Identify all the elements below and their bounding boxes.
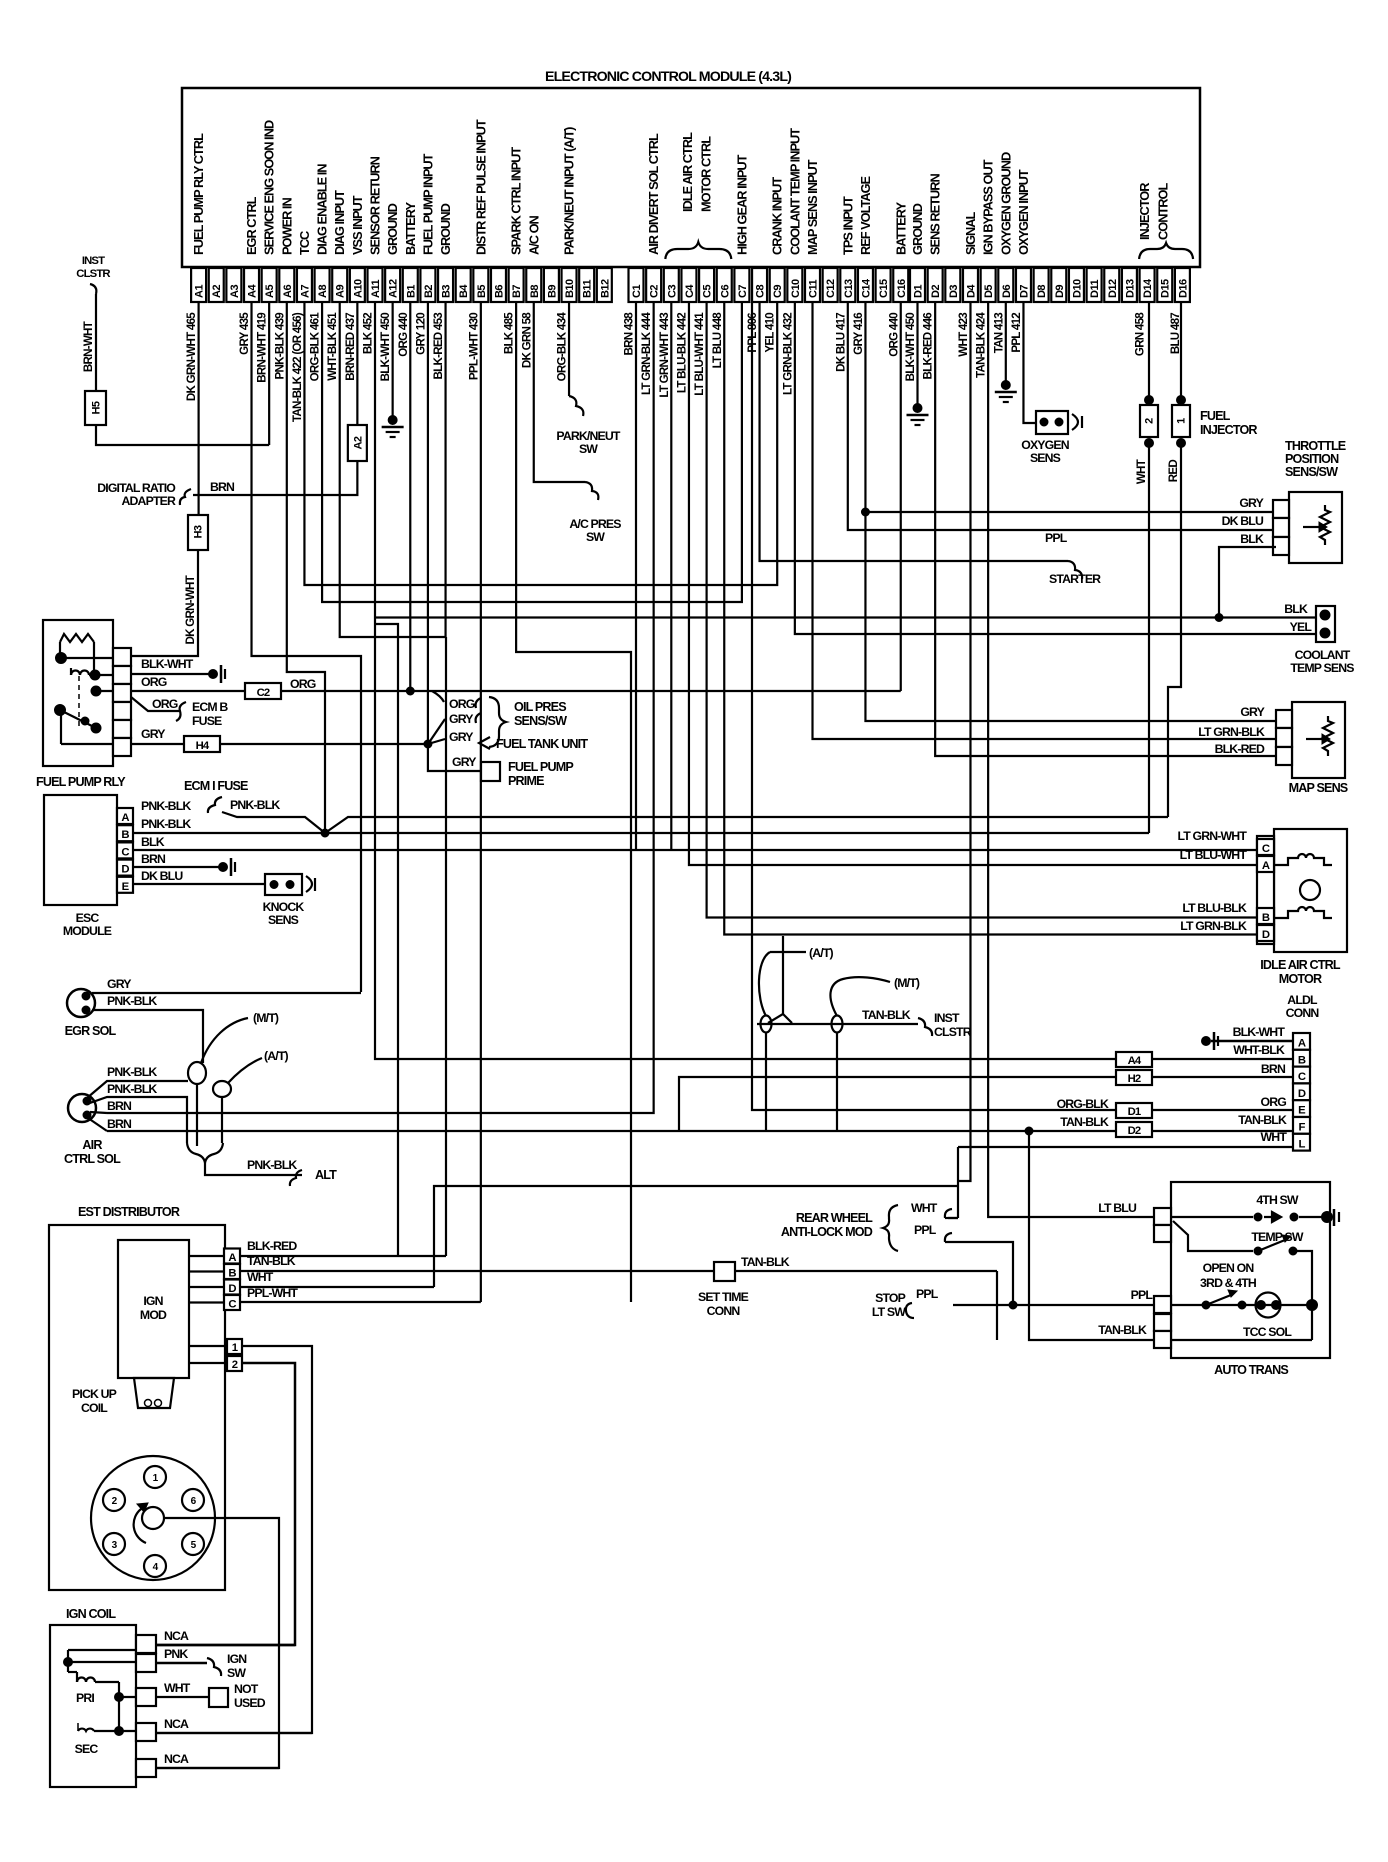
svg-text:PNK-BLK 439: PNK-BLK 439 [273, 312, 286, 380]
svg-text:2: 2 [1144, 418, 1156, 424]
svg-text:ECM I FUSE: ECM I FUSE [184, 779, 248, 793]
svg-text:EGR SOL: EGR SOL [65, 1024, 117, 1038]
svg-text:IGN COIL: IGN COIL [66, 1607, 116, 1621]
svg-text:MODULE: MODULE [63, 924, 112, 938]
svg-text:RED: RED [1167, 460, 1180, 483]
svg-text:LT GRN-BLK: LT GRN-BLK [1198, 725, 1265, 739]
svg-text:IDLE AIR CTRL: IDLE AIR CTRL [680, 132, 695, 212]
svg-text:MOTOR: MOTOR [1279, 972, 1322, 986]
svg-text:H2: H2 [1128, 1073, 1141, 1085]
svg-text:ORG-BLK: ORG-BLK [1057, 1097, 1109, 1111]
svg-text:A12: A12 [388, 279, 400, 298]
svg-text:A7: A7 [299, 285, 311, 298]
svg-text:C4: C4 [684, 284, 696, 298]
wire B2 GRY down to fuel tank splice [427, 302, 429, 744]
wire GRY stub to oil pres [428, 719, 445, 744]
svg-text:DK BLU: DK BLU [141, 869, 183, 883]
svg-text:TAN-BLK: TAN-BLK [741, 1255, 790, 1269]
svg-text:C2: C2 [649, 285, 661, 298]
svg-text:D2: D2 [1128, 1125, 1141, 1137]
ground to ALDL A BLK-WHT [1211, 1040, 1293, 1043]
svg-text:A5: A5 [264, 285, 276, 298]
svg-text:ANTI-LOCK MOD: ANTI-LOCK MOD [781, 1225, 873, 1239]
svg-text:MOD: MOD [140, 1308, 167, 1322]
svg-text:TAN-BLK 424: TAN-BLK 424 [975, 312, 988, 378]
svg-text:AIR DIVERT SOL CTRL: AIR DIVERT SOL CTRL [646, 133, 661, 255]
big brace [883, 1205, 898, 1251]
relay internal coil [71, 671, 89, 676]
svg-text:D2: D2 [930, 285, 942, 298]
svg-text:BLK: BLK [1284, 602, 1308, 616]
svg-text:SIGNAL: SIGNAL [963, 211, 978, 255]
svg-text:OXYGEN INPUT: OXYGEN INPUT [1016, 169, 1031, 255]
svg-text:D7: D7 [1018, 285, 1030, 298]
temp sw circuit [1254, 1247, 1262, 1255]
svg-text:TCC SOL: TCC SOL [1243, 1325, 1292, 1339]
svg-text:FUSE: FUSE [192, 714, 222, 728]
wire dist B TAN-BLK to set time conn and auto trans [240, 1270, 997, 1272]
svg-text:MAP SENS: MAP SENS [1289, 781, 1348, 795]
wire C3 LT GRN-WHT (unrouted short) [670, 302, 672, 850]
svg-text:BLK 452: BLK 452 [362, 313, 375, 354]
wire D1 BLK-WHT ground [916, 302, 918, 408]
wire B8 DK GRN to A/C pres switch [534, 302, 585, 482]
wire RED injector 1 down to PNK-BLK branch line [1168, 447, 1181, 817]
svg-text:A: A [228, 1252, 236, 1264]
wire air sol BRN lower to H2 jog [88, 1118, 107, 1131]
svg-text:PNK-BLK: PNK-BLK [247, 1158, 297, 1172]
svg-text:WHT: WHT [164, 1681, 191, 1695]
svg-text:C12: C12 [825, 279, 837, 298]
svg-text:H5: H5 [91, 401, 103, 414]
svg-text:ALT: ALT [315, 1168, 337, 1182]
svg-text:GRY 435: GRY 435 [238, 312, 251, 355]
svg-text:D15: D15 [1160, 279, 1172, 298]
svg-text:D8: D8 [1036, 285, 1048, 298]
svg-text:D11: D11 [1089, 280, 1101, 298]
svg-text:USED: USED [234, 1696, 266, 1710]
curve to A/T label [759, 952, 770, 1016]
svg-text:SENS RETURN: SENS RETURN [928, 174, 943, 255]
svg-text:GRY: GRY [1239, 496, 1263, 510]
svg-text:GRY: GRY [1240, 705, 1264, 719]
svg-text:PPL: PPL [1045, 531, 1068, 545]
svg-text:SET TIME: SET TIME [698, 1290, 749, 1304]
connector H2 inline on ALDL C line [1116, 1070, 1152, 1085]
svg-text:LT GRN-BLK 432: LT GRN-BLK 432 [781, 313, 794, 395]
svg-text:3RD & 4TH: 3RD & 4TH [1200, 1276, 1257, 1290]
wire GRY to fuel pump prime [428, 744, 481, 771]
wire vertical feed from idle-air D line to Y split [782, 936, 784, 1014]
svg-text:MOTOR CTRL: MOTOR CTRL [699, 136, 714, 212]
wire A4 GRY to EGR sol [252, 302, 361, 992]
wire B10 ORG-BLK to park/neut switch [568, 302, 570, 396]
rotor arrow [134, 1509, 146, 1543]
svg-text:PNK-BLK: PNK-BLK [230, 798, 280, 812]
svg-text:COIL: COIL [81, 1401, 108, 1415]
4th sw circuit [1171, 1216, 1253, 1218]
svg-text:BLK-WHT 450: BLK-WHT 450 [904, 313, 917, 382]
svg-text:A1: A1 [194, 285, 206, 298]
svg-text:D6: D6 [1001, 285, 1013, 298]
svg-text:4TH SW: 4TH SW [1256, 1193, 1299, 1207]
svg-text:EST DISTRIBUTOR: EST DISTRIBUTOR [78, 1205, 180, 1219]
svg-text:SEC: SEC [75, 1742, 99, 1756]
wire BLK coolant branch from A11 vertical [375, 616, 1315, 618]
M/T loop and curve [188, 1062, 206, 1084]
curve to M/T label [830, 977, 890, 1016]
auto trans box [1171, 1182, 1330, 1358]
svg-text:YEL 410: YEL 410 [764, 313, 777, 353]
wire ORG branch to ECM B fuse [131, 697, 180, 711]
svg-text:BRN: BRN [107, 1099, 132, 1113]
tcc sol circuit [1171, 1304, 1242, 1306]
oil pres sens/sw brace and label [489, 697, 506, 747]
wire dist A BLK-RED [240, 1255, 446, 1257]
svg-text:FUEL: FUEL [1200, 409, 1231, 423]
svg-text:CONN: CONN [707, 1304, 741, 1318]
fuel pump prime box [481, 762, 500, 781]
svg-text:WHT: WHT [911, 1201, 938, 1215]
ign coil wire NCA 2 [156, 1732, 312, 1734]
svg-text:A8: A8 [317, 285, 329, 298]
svg-text:D1: D1 [913, 285, 925, 298]
svg-text:FUEL PUMP RLY CTRL: FUEL PUMP RLY CTRL [191, 133, 206, 255]
svg-text:PNK-BLK: PNK-BLK [107, 1082, 157, 1096]
svg-text:C10: C10 [790, 279, 802, 298]
wire EGR PNK-BLK to M/T loop [92, 1010, 203, 1063]
svg-text:B2: B2 [423, 285, 435, 298]
svg-text:SENS: SENS [1030, 451, 1061, 465]
svg-text:B: B [1298, 1054, 1306, 1066]
ECM pin boxes C1-D16 [629, 268, 644, 302]
svg-text:STOP: STOP [875, 1291, 906, 1305]
wire tan-blk to inst clstr (middle) [757, 1023, 918, 1025]
svg-text:OXYGEN GROUND: OXYGEN GROUND [998, 152, 1013, 255]
svg-text:VSS INPUT: VSS INPUT [350, 195, 365, 255]
svg-text:TAN-BLK: TAN-BLK [247, 1254, 296, 1268]
svg-text:BLK-RED: BLK-RED [247, 1239, 297, 1253]
svg-text:PNK-BLK: PNK-BLK [107, 1065, 157, 1079]
svg-text:NOT: NOT [234, 1682, 259, 1696]
wire C2 to air ctrl sol BRN [107, 302, 654, 1113]
svg-text:BATTERY: BATTERY [403, 202, 418, 255]
svg-text:COOLANT TEMP INPUT: COOLANT TEMP INPUT [787, 128, 802, 255]
svg-text:GRY: GRY [449, 730, 473, 744]
svg-text:D: D [228, 1283, 236, 1295]
svg-text:B4: B4 [458, 284, 470, 298]
svg-text:D13: D13 [1124, 279, 1136, 298]
svg-text:SW: SW [586, 530, 605, 544]
svg-text:C: C [121, 846, 129, 858]
wire C6 to idle air D [724, 302, 1257, 935]
pnk-blk hook and label [208, 797, 222, 813]
TPS wiper arrow [1303, 526, 1319, 528]
svg-text:CRANK INPUT: CRANK INPUT [770, 177, 785, 255]
svg-text:BRN-RED 437: BRN-RED 437 [344, 313, 357, 381]
svg-text:ORG-BLK 461: ORG-BLK 461 [309, 312, 322, 382]
resistor zigzag in TPS [1320, 505, 1330, 545]
svg-text:PPL-WHT: PPL-WHT [247, 1286, 298, 1300]
svg-text:PNK-BLK: PNK-BLK [107, 994, 157, 1008]
svg-text:BRN: BRN [141, 852, 166, 866]
wire D14 GRN 458 to injector 2 [1148, 302, 1150, 400]
svg-text:COOLANT: COOLANT [1295, 648, 1351, 662]
svg-text:AIR: AIR [82, 1138, 102, 1152]
svg-text:ORG: ORG [141, 675, 167, 689]
svg-text:ALDL: ALDL [1287, 993, 1318, 1007]
svg-text:A10: A10 [352, 279, 364, 298]
wire A7 TAN-BLK across to C9 [304, 302, 777, 585]
svg-text:TAN-BLK: TAN-BLK [1238, 1113, 1287, 1127]
svg-text:GRN 458: GRN 458 [1134, 312, 1147, 356]
ALDL connector boxes A-L [1293, 1033, 1310, 1050]
wire A10 (VSS) through A2 connector to adapter [356, 302, 358, 425]
wire WHT from distributor D via 434 vertical [434, 1186, 958, 1287]
svg-text:B9: B9 [546, 285, 558, 298]
svg-text:BRN: BRN [107, 1117, 132, 1131]
knock sensor connector [265, 874, 302, 895]
wire A5 vertical [268, 302, 270, 445]
svg-text:DK BLU 417: DK BLU 417 [834, 313, 847, 372]
wire C1 BRN down to ESC BLK line [635, 302, 637, 850]
svg-text:(M/T): (M/T) [894, 976, 920, 990]
svg-text:DIAG ENABLE IN: DIAG ENABLE IN [315, 164, 330, 255]
svg-text:C5: C5 [702, 285, 714, 298]
svg-text:INST: INST [934, 1011, 960, 1025]
svg-text:NCA: NCA [164, 1629, 189, 1643]
ign coil wire NCA 1 [156, 1644, 295, 1647]
wire tan-blk to auto trans [1029, 1131, 1154, 1340]
svg-text:LT GRN-WHT: LT GRN-WHT [1178, 829, 1248, 843]
wire C10 YEL to coolant temp sens [795, 302, 1315, 634]
svg-text:BLK-WHT 450: BLK-WHT 450 [379, 313, 392, 382]
svg-text:CONN: CONN [1286, 1006, 1320, 1020]
svg-text:ELECTRONIC CONTROL MODULE (4.3: ELECTRONIC CONTROL MODULE (4.3L) [545, 69, 792, 85]
svg-text:TPS INPUT: TPS INPUT [840, 196, 855, 255]
ign coil wire PNK to ign sw [156, 1662, 207, 1665]
wire ORG stub to oil pres [432, 691, 444, 702]
fuel pump relay pin boxes [113, 648, 131, 666]
svg-text:LT GRN-BLK: LT GRN-BLK [1180, 919, 1247, 933]
fuel injector 2 connector [1145, 396, 1154, 405]
inst clstr loop A/T on dropper to ALDL F line [761, 1016, 772, 1033]
svg-text:PNK: PNK [164, 1647, 188, 1661]
A/C pres switch hook [585, 482, 598, 500]
est distributor outer box [49, 1225, 225, 1590]
svg-text:SW: SW [579, 442, 598, 456]
svg-text:INST: INST [82, 255, 105, 267]
svg-text:B11: B11 [582, 280, 594, 298]
svg-text:PRI: PRI [76, 1691, 94, 1705]
svg-text:DK GRN 58: DK GRN 58 [520, 312, 533, 368]
MAP sensor box with resistor [1292, 702, 1345, 778]
svg-text:PNK-BLK: PNK-BLK [141, 817, 191, 831]
ign coil wire NCA 3 [156, 1767, 279, 1769]
svg-text:GROUND: GROUND [910, 203, 925, 255]
svg-text:D4: D4 [965, 284, 977, 298]
svg-text:BRN: BRN [1261, 1062, 1286, 1076]
svg-text:D: D [1262, 929, 1270, 941]
wire air sol BRN to C2 [90, 1112, 107, 1113]
wire A11 BLK long vertical to ALDL B line [375, 302, 1293, 1059]
inst clstr loop M/T on dropper to ALDL F line [832, 1016, 843, 1033]
svg-text:A: A [1262, 860, 1270, 872]
svg-text:ORG-BLK 434: ORG-BLK 434 [556, 312, 569, 382]
svg-text:TEMP SW: TEMP SW [1251, 1230, 1303, 1244]
svg-text:ORG: ORG [290, 677, 316, 691]
TPS box with resistor [1289, 492, 1342, 563]
svg-text:PPL: PPL [914, 1223, 937, 1237]
wire TPS BLK down to coolant BLK line [1219, 547, 1276, 618]
svg-text:ORG 440: ORG 440 [397, 313, 410, 357]
svg-text:C9: C9 [772, 285, 784, 298]
svg-text:MAP SENS INPUT: MAP SENS INPUT [805, 159, 820, 255]
svg-text:PPL-WHT 430: PPL-WHT 430 [467, 313, 480, 380]
svg-text:A: A [121, 812, 129, 824]
svg-text:TAN-BLK 422 (OR 456): TAN-BLK 422 (OR 456) [291, 312, 304, 422]
svg-text:B: B [228, 1268, 236, 1280]
svg-text:D: D [121, 864, 129, 876]
svg-text:A4: A4 [1128, 1055, 1142, 1067]
svg-text:LT BLU: LT BLU [1098, 1201, 1137, 1215]
svg-text:ORG: ORG [1261, 1095, 1287, 1109]
svg-text:TAN-BLK: TAN-BLK [1098, 1323, 1147, 1337]
svg-text:B6: B6 [493, 285, 505, 298]
svg-text:LT BLU-WHT 441: LT BLU-WHT 441 [693, 312, 706, 396]
wire H5 to A5 BRN-WHT [96, 425, 269, 445]
distributor cap circle [91, 1456, 215, 1580]
connector A2 inline [348, 425, 367, 461]
svg-text:SENS: SENS [268, 913, 299, 927]
svg-text:YEL: YEL [1290, 620, 1313, 634]
svg-text:L: L [1298, 1138, 1305, 1150]
wire C4 to idle air A [689, 302, 1257, 865]
wire A6 PNK-BLK jog to ECM I fuse junction [287, 302, 325, 833]
idle air control motor connector and box [1274, 829, 1347, 952]
svg-text:ECM B: ECM B [192, 700, 228, 714]
svg-text:TAN 413: TAN 413 [992, 312, 1005, 354]
EGR solenoid [67, 989, 95, 1017]
svg-text:TAN-BLK: TAN-BLK [862, 1008, 911, 1022]
svg-text:A/C ON: A/C ON [526, 215, 541, 255]
tcc sol bottom return line [1171, 1339, 1312, 1341]
svg-text:D10: D10 [1071, 279, 1083, 298]
svg-text:KNOCK: KNOCK [263, 900, 305, 914]
wire dist D WHT [240, 1286, 434, 1288]
svg-text:GRY 416: GRY 416 [852, 312, 865, 355]
svg-text:CLSTR: CLSTR [934, 1025, 972, 1039]
ign mod box [118, 1240, 189, 1378]
ESC pin boxes A-E [117, 808, 133, 824]
svg-text:PPL: PPL [916, 1287, 939, 1301]
svg-text:A: A [1298, 1038, 1306, 1050]
svg-text:B12: B12 [599, 279, 611, 298]
svg-text:BRN-WHT: BRN-WHT [82, 321, 95, 372]
connector D2 inline on ALDL F line [1116, 1122, 1152, 1137]
ground on A12 BLK-WHT [392, 302, 394, 420]
svg-text:GRY: GRY [107, 977, 131, 991]
svg-text:STARTER: STARTER [1049, 572, 1101, 586]
svg-text:C3: C3 [666, 285, 678, 298]
connector H3 [188, 515, 208, 550]
ign coil wire WHT to not used [156, 1696, 209, 1698]
svg-text:GROUND: GROUND [438, 203, 453, 255]
wire B5 PPL-WHT down to distributor C line [480, 302, 482, 1302]
svg-text:C1: C1 [631, 285, 643, 298]
wire GRY branch to TPS [865, 511, 1290, 513]
svg-text:TCC: TCC [297, 231, 312, 255]
wire BRN2 from air ctrl sol through to ALDL F [107, 1130, 1293, 1132]
wire PPL rwal to stop lt junction [945, 1242, 1013, 1305]
wire jog up to H2 / ALDL C line [679, 1077, 1293, 1131]
svg-text:ORG: ORG [152, 697, 178, 711]
svg-text:AUTO TRANS: AUTO TRANS [1214, 1363, 1288, 1377]
wire pin 1 to ign coil NCA [156, 1346, 312, 1733]
wire C16 ORG battery to ORG splice line [900, 302, 902, 691]
ECM pin boxes A1-B12 [191, 268, 206, 302]
svg-text:A2: A2 [211, 285, 223, 298]
svg-text:C2: C2 [257, 687, 270, 699]
svg-text:PPL 412: PPL 412 [1010, 313, 1023, 353]
svg-text:FUEL PUMP RLY: FUEL PUMP RLY [36, 775, 126, 789]
wire rotor to ign coil SEC [156, 1518, 279, 1768]
set time conn box inline [714, 1262, 735, 1281]
svg-text:D: D [1298, 1088, 1306, 1100]
svg-text:SW: SW [227, 1666, 246, 1680]
svg-text:CONTROL: CONTROL [1156, 183, 1171, 240]
wire D5 TAN-BLK ign bypass down to auto trans LT BLU [988, 302, 1154, 1217]
wire C11 LT GRN-BLK to MAP sens [813, 302, 1279, 739]
svg-text:REAR WHEEL: REAR WHEEL [796, 1211, 873, 1225]
svg-text:LT BLU 448: LT BLU 448 [711, 312, 724, 369]
wire set-time vertical down to auto trans tan-blk line [996, 1271, 998, 1340]
svg-text:F: F [1298, 1122, 1305, 1134]
svg-text:LT GRN-BLK 444: LT GRN-BLK 444 [640, 312, 653, 395]
distributor cylinders 1-6 [144, 1466, 166, 1488]
svg-text:HIGH GEAR INPUT: HIGH GEAR INPUT [734, 154, 749, 255]
svg-text:BRN-WHT 419: BRN-WHT 419 [256, 312, 269, 383]
relay internal resistor [60, 634, 94, 642]
wire D4 WHT signal to ALDL L and RWAL [958, 302, 970, 1181]
svg-text:NCA: NCA [164, 1752, 189, 1766]
wire GRY stub to fuel tank unit [428, 739, 445, 744]
idle air coil B [1274, 907, 1332, 918]
svg-text:B3: B3 [441, 285, 453, 298]
ign coil box [50, 1625, 136, 1787]
wire A8 ORG-BLK across to C7 [322, 302, 742, 602]
wire from inst clstr hook down through H5 [90, 284, 96, 294]
svg-text:B10: B10 [564, 279, 576, 298]
wire gather funnel to ALT [187, 1143, 223, 1163]
wire C14 GRY to TPS and MAP [865, 302, 1278, 721]
wire pin 2 to ign coil NCA [156, 1363, 295, 1645]
svg-text:C6: C6 [719, 285, 731, 298]
wire WHT injector 2 down to ESC A PNK-BLK line [1148, 447, 1150, 833]
svg-text:IDLE AIR CTRL: IDLE AIR CTRL [1260, 958, 1341, 972]
wire D2 BLK-RED to MAP sens [935, 302, 1278, 756]
svg-text:PRIME: PRIME [508, 774, 544, 788]
svg-text:C14: C14 [860, 278, 872, 298]
wire H3 down to fuel pump relay [131, 550, 198, 656]
connector H4 inline [184, 736, 220, 752]
wire A1 DK GRN-WHT down to H3 [198, 302, 200, 515]
idle air coil A [1274, 854, 1332, 865]
svg-text:A2: A2 [352, 436, 364, 449]
svg-text:D12: D12 [1107, 279, 1119, 298]
distributor rotor [142, 1507, 164, 1529]
wire D6 TAN ground [1005, 302, 1007, 385]
